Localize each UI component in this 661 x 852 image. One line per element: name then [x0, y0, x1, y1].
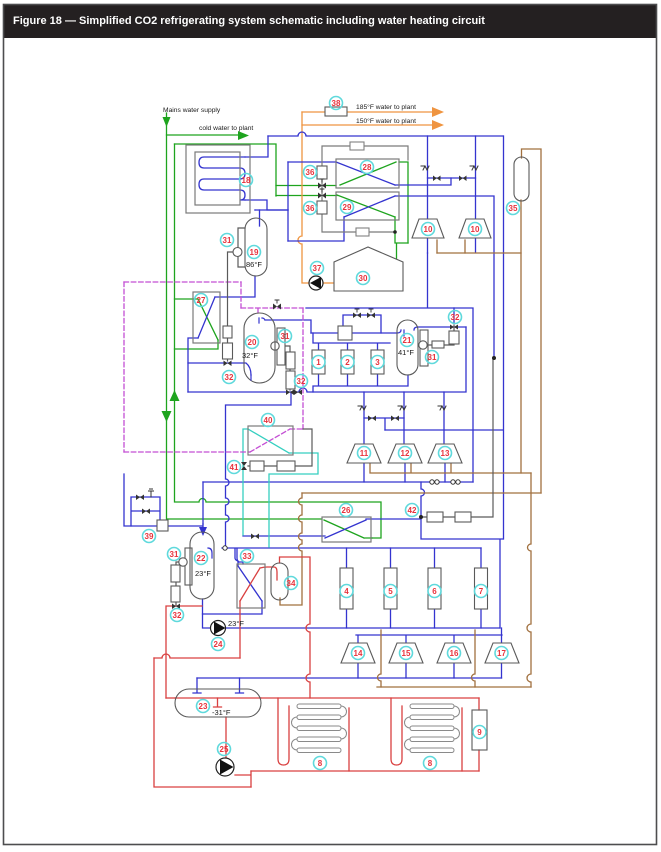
wire: coil2 outlet — [461, 708, 463, 771]
wire: MT suction header y482 — [203, 481, 473, 483]
junction dot gray box — [393, 230, 397, 234]
wire: vessel21 gauge chain — [427, 325, 454, 345]
evaporator 1 — [312, 350, 325, 374]
wire: coil18 bottom to y210 — [245, 200, 288, 210]
wire: desuperheater drop x288 — [287, 162, 289, 241]
filter on dashed line — [273, 304, 281, 310]
wire: coil18 serpentine — [199, 157, 245, 200]
compressor 10b — [459, 219, 491, 238]
vessel 19 — [245, 218, 267, 276]
wire: suction manifold y178 — [428, 177, 476, 179]
valve 36 upper green — [318, 183, 326, 189]
wire: vessel23 vapor drops — [193, 678, 244, 693]
svg-text:13: 13 — [441, 449, 450, 458]
valve evap feed bypass 1 — [353, 313, 361, 319]
wire: coil return header y771 — [251, 770, 479, 772]
wire: vessel23 feed y698 — [166, 697, 175, 699]
check valve circles y482 — [430, 480, 460, 484]
svg-text:24: 24 — [214, 640, 223, 649]
valve vessel19 drain — [224, 361, 232, 367]
wire: vessel20 liquid out y320 — [262, 318, 311, 333]
component: rect on gray box bottom — [356, 228, 369, 236]
wire: header y430 — [385, 429, 503, 431]
oil separator 35 — [514, 157, 529, 201]
compressor 14 — [341, 643, 375, 663]
svg-text:32: 32 — [225, 373, 234, 382]
gray box around HX28/29 — [322, 146, 408, 232]
vessel22 internal stub — [208, 548, 212, 558]
HX26 body — [322, 517, 371, 542]
wire: dashed top y282 — [124, 281, 241, 283]
wire: HX33 branch y405 — [226, 392, 292, 549]
gauge bracket vessel20 — [277, 328, 285, 365]
compressor 15 — [389, 643, 423, 663]
wire: HX28 out to manifold — [395, 178, 451, 185]
svg-text:42: 42 — [408, 506, 417, 515]
wire: 39 bypass assembly — [131, 497, 160, 526]
wire: vessel21 right chain riser — [453, 308, 455, 323]
wire: drop x503 — [503, 136, 505, 539]
wire: vessel23 bottom to pump25 — [225, 717, 227, 758]
svg-text:19: 19 — [250, 248, 259, 257]
svg-text:25: 25 — [220, 745, 229, 754]
wire: coil18 top connection — [245, 136, 268, 157]
blue diag HX26 — [325, 520, 366, 538]
float 31 vessel19 — [233, 248, 242, 257]
wire: red return y658 — [154, 654, 240, 658]
wire: 42 oil return line — [421, 358, 493, 517]
wire: HX40 left leg x243 — [243, 429, 248, 535]
svg-text:17: 17 — [497, 649, 506, 658]
accumulator 9 — [472, 710, 487, 750]
svg-text:31: 31 — [281, 332, 290, 341]
valve HX26 line — [251, 534, 259, 540]
evaporator 2 — [341, 350, 354, 374]
svg-text:30: 30 — [359, 274, 368, 283]
pump 25 — [216, 758, 234, 776]
svg-text:33: 33 — [243, 552, 252, 561]
compressor 10a — [412, 219, 444, 238]
svg-text:41°F: 41°F — [398, 348, 414, 357]
svg-text:36: 36 — [306, 204, 315, 213]
svg-text:10: 10 — [471, 225, 480, 234]
svg-text:34: 34 — [287, 579, 296, 588]
wire: HX27 water outlet y349 — [175, 340, 219, 349]
arrow: cold water to plant — [238, 131, 249, 140]
wire: comp10a stem x427 — [427, 238, 429, 253]
wire: vessel19 to HX27 — [215, 276, 255, 297]
svg-text:16: 16 — [450, 649, 459, 658]
valve evap feed bypass 2 — [367, 313, 375, 319]
svg-text:86°F: 86°F — [246, 260, 262, 269]
valve manifold right y178 — [459, 176, 467, 182]
thermometer tick in vessel23 — [214, 698, 222, 707]
filter 36 lower — [317, 201, 327, 214]
junction dot x494 — [492, 356, 496, 360]
wire: 185F water to plant — [302, 111, 432, 113]
valve 39 rung2 — [142, 509, 150, 515]
svg-text:14: 14 — [354, 649, 363, 658]
compressor 12 — [388, 444, 422, 463]
wire: red left drop x154 — [154, 658, 251, 787]
wire: vessel22 inlet y526 — [124, 474, 203, 528]
svg-text:32: 32 — [451, 313, 460, 322]
wire: evap4-7 risers top — [347, 548, 482, 568]
cyan diag HX40 — [248, 429, 289, 453]
wire: LT liquid header y698 — [261, 697, 479, 699]
vessel 34 — [271, 563, 288, 600]
svg-text:28: 28 — [363, 163, 372, 172]
relief 39 — [149, 489, 154, 497]
wire: HX27 out to x188 — [188, 338, 198, 392]
arrow: 150F — [432, 120, 444, 130]
wire: HX28 water branch y185 — [276, 185, 336, 187]
wire: LT oil stems — [378, 630, 476, 687]
wire: comp11-13 suction stems — [364, 463, 445, 482]
wire: HP discharge header y253 — [437, 252, 521, 254]
filter 36 upper — [317, 166, 327, 179]
wire: HX27 water inlet y299 — [175, 298, 198, 300]
arrow: water down x166 — [162, 411, 172, 422]
HX27 body — [193, 292, 220, 343]
blue diag HX33 — [235, 549, 262, 601]
wire: comp11-13 valve manifold y418 — [364, 418, 404, 430]
svg-text:3: 3 — [375, 358, 380, 367]
wire: vessel23 internal y698 — [175, 697, 261, 699]
wire: vessel22 drain y606 — [166, 606, 202, 698]
wire: HX29 feed y241 — [288, 217, 344, 241]
vessel 22 — [190, 532, 214, 599]
wire: cold water to plant y135 — [167, 134, 239, 136]
svg-text:37: 37 — [313, 264, 322, 273]
svg-text:23°F: 23°F — [195, 569, 211, 578]
svg-text:20: 20 — [248, 338, 257, 347]
title bar — [3, 4, 657, 38]
svg-text:21: 21 — [403, 336, 412, 345]
tank 18 inner box — [195, 152, 240, 205]
wire: vessel22 feed x203 — [202, 482, 204, 524]
evaporator 5 — [384, 568, 397, 609]
arrow: water up x174 — [170, 390, 180, 401]
vessel20 internal stubs — [251, 318, 259, 380]
svg-text:39: 39 — [145, 532, 154, 541]
relief glyphs (zigzag) — [149, 166, 479, 550]
coil 8 right tubes — [405, 704, 460, 753]
wire: y210 tee — [255, 209, 288, 211]
green diag HX27 — [198, 299, 218, 340]
vessel 21 — [397, 320, 418, 375]
compressor 16 — [437, 643, 471, 663]
vessel21 internal stubs — [403, 330, 405, 336]
gauge bracket vessel21 — [420, 330, 428, 366]
HX33 body — [237, 564, 265, 608]
wire: hot water riser x302 — [298, 112, 310, 283]
relief comp12 — [398, 406, 406, 410]
blue diag HX29 — [344, 196, 395, 217]
svg-text:29: 29 — [343, 203, 352, 212]
wire: dashed y452 to HX40 — [124, 451, 250, 453]
valve manifold left y178 — [433, 176, 441, 182]
svg-text:36: 36 — [306, 168, 315, 177]
svg-text:35: 35 — [509, 204, 518, 213]
wire: coil1 inlet U — [278, 698, 289, 765]
wire: dashed drop x241 — [240, 282, 242, 308]
wire: HX26 out to 42 y519 — [366, 518, 421, 520]
wire: dashed y308 — [241, 308, 303, 315]
blue diag HX27 — [198, 297, 215, 338]
svg-text:32: 32 — [297, 377, 306, 386]
wire: vessel22 gauge line — [176, 562, 179, 605]
wire: mains water supply drop x166 — [167, 113, 323, 519]
41 line rects — [250, 461, 264, 471]
compressor 17 — [485, 643, 519, 663]
wire: evap123 bottom header y386 — [313, 374, 408, 392]
compressor 11 — [347, 444, 381, 463]
svg-text:23: 23 — [199, 702, 208, 711]
wire: 41 injection line — [248, 429, 312, 466]
evaporator 6 — [428, 568, 441, 609]
wire: vessel21 top loop y327 — [414, 327, 466, 330]
wire: HX28 feed y162 — [288, 161, 336, 163]
HX28 body — [336, 159, 399, 188]
vessel22 drain filters — [171, 565, 180, 582]
pump 24 — [211, 621, 226, 636]
wire: comp10b suction x475 — [475, 136, 477, 219]
valve 36 lower green — [318, 193, 326, 199]
valve comp11 y418 — [368, 416, 376, 422]
svg-text:27: 27 — [197, 296, 206, 305]
wire: HX33 feed drop — [203, 601, 263, 614]
relief comp10a — [421, 166, 429, 170]
valve vessel21 chain — [450, 325, 458, 330]
wire: vessel34 top loop — [280, 557, 311, 698]
wire: pump37 to tank30 — [323, 282, 334, 284]
svg-text:11: 11 — [360, 449, 369, 458]
wire: MT oil header y473 — [370, 463, 531, 473]
wire: pumped header y628 — [224, 627, 500, 629]
svg-text:6: 6 — [432, 587, 437, 596]
wire: HX29 water out to tank30 — [395, 217, 408, 261]
svg-text:7: 7 — [479, 587, 484, 596]
wire: vessel20 inlet y363 — [188, 363, 251, 375]
valve comp12 y418 — [391, 416, 399, 422]
wire: LT discharge header y635 — [356, 628, 502, 643]
valve vessel20 drain — [286, 390, 294, 396]
svg-text:150°F water to plant: 150°F water to plant — [356, 117, 416, 125]
wire: liquid header y548 — [222, 548, 481, 564]
wire: comp10a suction x427 — [427, 136, 429, 219]
wire: vessel20 gauge line — [279, 346, 290, 390]
component: rect on gray box top — [350, 142, 364, 150]
wire: HX33 red circuit — [240, 567, 277, 601]
wire: long liquid line y392 — [188, 327, 466, 392]
wire: vessel19 gauge line — [228, 252, 234, 361]
svg-text:cold water to plant: cold water to plant — [199, 125, 253, 132]
wire: vessel19 top stub — [259, 210, 261, 226]
svg-text:22: 22 — [197, 554, 206, 563]
svg-text:15: 15 — [402, 649, 411, 658]
wire: oil drop x531 — [527, 473, 531, 687]
green diag HX26 — [324, 520, 372, 538]
hot water tank 30 — [334, 247, 403, 291]
svg-text:31: 31 — [223, 236, 232, 245]
svg-text:31: 31 — [428, 353, 437, 362]
HX40 body — [248, 426, 293, 455]
svg-text:23°F: 23°F — [228, 619, 244, 628]
wire: oil sep35 top to x541 — [522, 149, 542, 493]
vessel19 drain filters — [223, 326, 232, 338]
wire: comp11-13 discharge risers — [364, 392, 444, 444]
wire: evap123 feed y333 — [311, 330, 401, 333]
svg-text:40: 40 — [264, 416, 273, 425]
arrow: mains supply down — [163, 117, 171, 127]
compressor 13 — [428, 444, 462, 463]
wire: 42 to evap feed — [421, 482, 503, 628]
blue diag HX28 — [336, 162, 395, 185]
component 38 heat meter — [325, 107, 347, 116]
valve y548 circle — [223, 546, 227, 550]
svg-text:18: 18 — [242, 176, 251, 185]
svg-text:4: 4 — [344, 587, 349, 596]
green diag HX29 — [337, 195, 395, 217]
valve vessel22 drain — [172, 604, 180, 610]
svg-text:31: 31 — [170, 550, 179, 559]
evap123 liquid filter — [338, 326, 352, 340]
wire: evap123 top header y343 — [313, 333, 390, 350]
svg-text:26: 26 — [342, 506, 351, 515]
arrow: 185F — [432, 107, 444, 117]
arrow: vessel22 inlet — [199, 527, 207, 536]
vessel 23 horizontal — [175, 689, 261, 717]
wire: comp10 discharge stems — [437, 240, 465, 253]
valve 41 — [241, 462, 247, 470]
component 39 box — [157, 520, 168, 531]
svg-text:41: 41 — [230, 463, 239, 472]
vessel19 gauge bracket — [238, 228, 245, 267]
svg-text:9: 9 — [477, 728, 482, 737]
HX29 body — [336, 192, 399, 220]
gauge bracket vessel22 — [185, 548, 192, 585]
wire: HX29 out y196 — [395, 196, 494, 358]
dashed diag HX40 — [250, 429, 302, 452]
wire: heat reclaim y493 — [302, 492, 541, 494]
relief comp10b — [470, 166, 478, 170]
svg-text:12: 12 — [401, 449, 410, 458]
42 line rects — [427, 512, 443, 522]
wire: LT oil header y687 — [377, 686, 531, 688]
wire: HP discharge header y135 — [268, 132, 503, 136]
svg-text:8: 8 — [318, 759, 323, 768]
wire: water return riser x174 — [175, 144, 382, 538]
wire: coil2 inlet U — [391, 698, 402, 765]
wire: reclaim drop x302 — [280, 493, 302, 605]
svg-text:5: 5 — [388, 587, 393, 596]
svg-text:2: 2 — [345, 358, 350, 367]
wire: vapor line y308 — [306, 253, 473, 482]
evaporator 7 — [475, 568, 488, 609]
wire: dashed left x124 — [123, 282, 125, 452]
valve stems (small) — [275, 179, 373, 312]
float 31 vessel20 — [271, 342, 279, 350]
wire: water feed to HX28/29 y144 — [175, 144, 277, 196]
wire: comp10b stem — [475, 238, 477, 252]
wire: HX26 liquid out y536 — [243, 535, 325, 537]
wire: LT suction header y678 — [197, 677, 502, 679]
wire: oil sep35 riser x521 — [520, 200, 522, 473]
relief comp13 — [438, 406, 446, 410]
svg-text:10: 10 — [424, 225, 433, 234]
wire: evap4-7 drops bottom — [347, 609, 482, 628]
svg-text:32°F: 32°F — [242, 351, 258, 360]
svg-text:185°F water to plant: 185°F water to plant — [356, 103, 416, 111]
evaporator 4 — [340, 568, 353, 609]
float 31 vessel21 — [419, 341, 427, 349]
valve liquid line y392 — [294, 390, 302, 396]
wire: coil1 outlet — [348, 708, 350, 771]
svg-text:38: 38 — [332, 99, 341, 108]
vessel 20 — [244, 313, 275, 383]
svg-text:32: 32 — [173, 611, 182, 620]
wire: HX29 water branch y196 — [276, 195, 337, 197]
wire: 150F water to plant — [302, 124, 432, 126]
tank 18 outer box — [186, 145, 250, 213]
wire: HX33 red drop x240 — [239, 601, 241, 658]
wire: dashed drop x303 — [302, 308, 304, 429]
float 31 vessel22 — [179, 558, 187, 566]
svg-text:-31°F: -31°F — [212, 708, 231, 717]
vessel20 drain filters — [286, 352, 295, 369]
wire: HX28 water out to tank30 — [399, 162, 408, 243]
pump 37 — [309, 276, 323, 290]
svg-text:Mains water supply: Mains water supply — [163, 107, 221, 114]
svg-text:1: 1 — [316, 358, 321, 367]
valve 39 rung1 — [136, 495, 144, 501]
coil 8 left tubes — [292, 704, 347, 753]
relief comp11 — [358, 406, 366, 410]
svg-text:8: 8 — [428, 759, 433, 768]
green diag HX28 — [340, 162, 396, 185]
wire: HX40 right circuit — [269, 453, 318, 547]
wire: vessel22 to pump24 — [203, 599, 212, 628]
junction dot 42 — [419, 515, 423, 519]
wire: pump25 line — [235, 771, 251, 787]
wire: LT suction stems — [358, 663, 502, 678]
wire: accum9 stubs — [478, 698, 480, 771]
evaporator 3 — [371, 350, 384, 374]
vessel21 chain rects — [432, 341, 444, 348]
wire: filter bypass y315 — [343, 315, 381, 333]
